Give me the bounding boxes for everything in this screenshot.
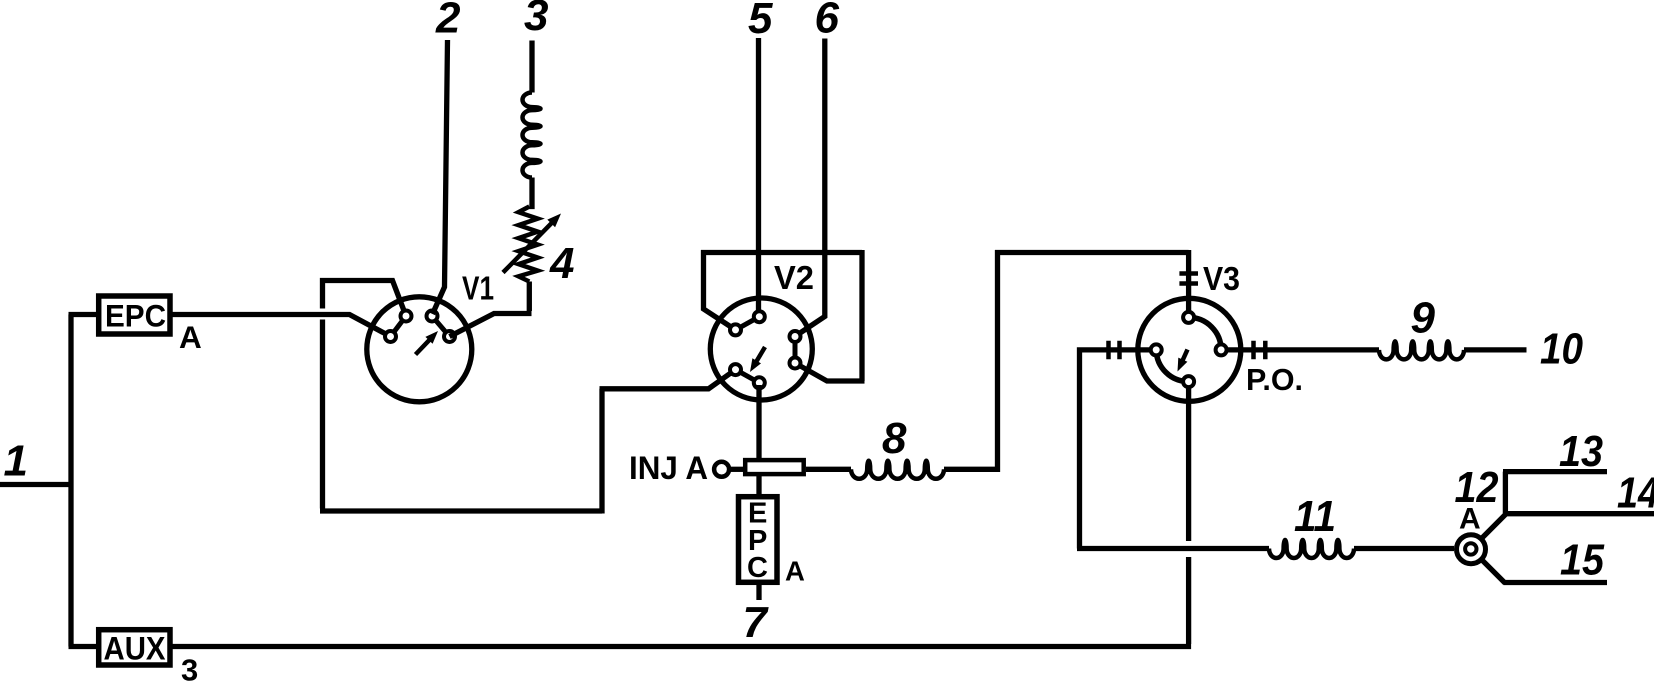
- variable restrictor 4 (zigzag): [519, 207, 538, 282]
- svg-text:A: A: [1459, 502, 1481, 535]
- valve V1 body: [367, 297, 472, 402]
- wire: V3 right port through frits to coil 9: [1228, 347, 1379, 352]
- V1 rotor channel stubs: [391, 316, 407, 337]
- V1 ports: [401, 311, 412, 322]
- svg-text:V2: V2: [774, 259, 814, 296]
- svg-text:7: 7: [743, 598, 770, 647]
- valve V2 body: [710, 298, 812, 400]
- injector septum port (open circle): [714, 462, 729, 477]
- valve V3 body: [1138, 298, 1241, 401]
- frit ticks on V3 right line: [1254, 341, 1266, 359]
- wire: V2 bottom port down to injector tee: [756, 385, 761, 459]
- V2 rotor channel stubs: [736, 317, 760, 330]
- svg-text:2: 2: [435, 0, 461, 43]
- column coil 9: [1379, 341, 1464, 359]
- wire: V1 sample loop (port1 around left/bottom to valve V2 lower-left port): [323, 281, 407, 317]
- svg-text:14: 14: [1617, 469, 1654, 518]
- wire: V2 injector EPC supply below: [756, 476, 761, 494]
- wire: coil 9 to stream 10: [1464, 347, 1527, 352]
- svg-text:8: 8: [882, 414, 907, 463]
- svg-text:6: 6: [815, 0, 840, 43]
- wire: injector to column coil 8: [806, 467, 851, 472]
- wire: coil 8 up and over to valve V3 top: [944, 250, 1189, 469]
- svg-text:AUX: AUX: [104, 631, 167, 667]
- frit ticks on V3 left line: [1109, 341, 1120, 359]
- svg-text:15: 15: [1560, 536, 1604, 585]
- svg-text:1: 1: [4, 437, 28, 486]
- V3 ports: [1183, 312, 1194, 323]
- svg-text:3: 3: [524, 0, 548, 40]
- column coil 11: [1269, 540, 1354, 558]
- svg-text:EPC: EPC: [105, 297, 166, 333]
- svg-text:C: C: [747, 552, 768, 584]
- wire: left manifold vertical (EPC A to AUX): [68, 315, 73, 647]
- V3 rotor channel arc left-bottom: [1156, 350, 1188, 382]
- wire: splitter to streams 13 and 14: [1483, 472, 1654, 538]
- wire: V3 left port to coil 11: [1077, 350, 1269, 549]
- svg-text:13: 13: [1559, 427, 1603, 476]
- V3 rotor channel arc top-right: [1189, 317, 1222, 350]
- svg-text:P.O.: P.O.: [1246, 362, 1303, 397]
- svg-text:4: 4: [549, 239, 574, 288]
- svg-text:V1: V1: [462, 269, 494, 306]
- wire: restrictor to V1 port: [450, 282, 532, 337]
- splitter union 12 (double circle): [1457, 535, 1486, 564]
- wire: coil 11 to splitter 12: [1354, 546, 1454, 551]
- wire: supply line 1 into manifold: [0, 482, 71, 487]
- wire: manifold into AUX box: [69, 644, 99, 649]
- V2 sample loop wire (upper-left port around top/right to lower-right port): [701, 250, 865, 381]
- svg-text:3: 3: [181, 653, 198, 681]
- svg-text:11: 11: [1294, 492, 1336, 541]
- V2 ports: [754, 311, 765, 322]
- wire: EPC to stream 7: [756, 585, 761, 600]
- V3 rotor arrow: [1182, 350, 1187, 362]
- EPC A box: [99, 296, 170, 334]
- svg-text:10: 10: [1540, 325, 1583, 374]
- AUX box: [99, 630, 170, 665]
- svg-text:5: 5: [748, 0, 773, 43]
- svg-text:INJ A: INJ A: [629, 450, 708, 486]
- restrictor adjustment arrow: [503, 222, 553, 272]
- injector liner (rectangle): [745, 460, 804, 474]
- EPC box (injection EPC, vertical): [739, 497, 778, 583]
- svg-text:V3: V3: [1203, 260, 1240, 297]
- svg-text:A: A: [179, 319, 202, 355]
- frit ticks on V3 top line: [1179, 274, 1198, 284]
- wire: AUX to V3 bottom port (with crossover gap): [1186, 387, 1191, 541]
- V2 rotor arrow: [756, 347, 765, 363]
- svg-text:A: A: [785, 556, 805, 587]
- column coil on line 3: [523, 93, 541, 178]
- V1 rotor arrow: [416, 339, 431, 355]
- wire: EPC A to valve V1 port 3: [172, 315, 391, 337]
- wire: into EPC A box: [69, 312, 98, 317]
- svg-text:9: 9: [1411, 294, 1436, 343]
- wire: splitter to stream 15: [1483, 561, 1608, 584]
- column coil 8: [851, 461, 944, 479]
- wire: septum to injector body: [730, 467, 745, 472]
